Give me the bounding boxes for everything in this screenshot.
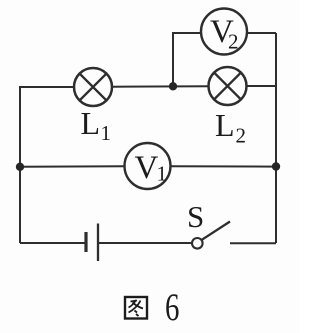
svg-text:2: 2 [228, 30, 239, 54]
svg-text:L: L [215, 107, 235, 143]
svg-text:6: 6 [165, 287, 179, 329]
svg-text:1: 1 [101, 121, 112, 145]
svg-text:1: 1 [157, 162, 168, 186]
svg-text:V: V [135, 150, 159, 186]
svg-text:S: S [187, 199, 204, 234]
svg-text:2: 2 [236, 124, 247, 148]
svg-text:L: L [81, 105, 101, 141]
